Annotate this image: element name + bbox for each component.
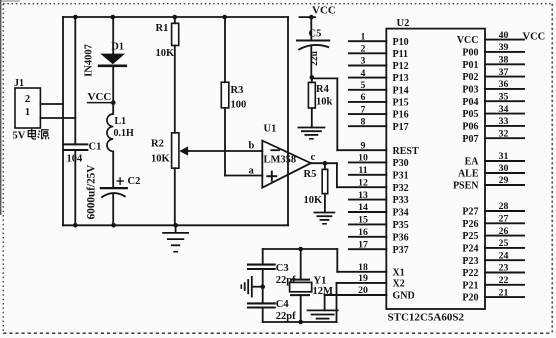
capacitor C5 22u	[297, 29, 329, 50]
pin 26 (P25)	[462, 226, 524, 242]
pin 17 (P37)	[349, 239, 409, 255]
pin 15 (P35)	[349, 215, 409, 231]
node top rail / R3	[222, 15, 227, 20]
svg-text:15: 15	[358, 215, 368, 226]
svg-text:a: a	[249, 166, 255, 177]
svg-text:P32: P32	[393, 183, 409, 194]
svg-text:R3: R3	[231, 85, 244, 96]
svg-text:P36: P36	[393, 232, 409, 243]
svg-text:P33: P33	[393, 195, 409, 206]
pin 5 (P14)	[349, 80, 409, 96]
wire GND pin20 to ground	[324, 295, 326, 310]
label output c	[311, 152, 316, 163]
svg-text:13: 13	[358, 190, 368, 201]
svg-text:35: 35	[499, 91, 509, 102]
svg-text:39: 39	[499, 42, 509, 53]
wire C4 to bottom wire	[262, 308, 264, 323]
node C3/C4/ground	[260, 284, 265, 289]
wire crystal bottom rail	[263, 321, 337, 323]
svg-text:R2: R2	[151, 139, 164, 150]
svg-text:27: 27	[499, 214, 509, 225]
node bottom rail / C1	[73, 223, 78, 228]
wire C2 to ground rail	[112, 194, 114, 225]
wire VCC to C5	[310, 17, 312, 40]
svg-text:VCC: VCC	[523, 32, 546, 43]
svg-text:1: 1	[25, 107, 30, 118]
svg-text:EA: EA	[465, 157, 480, 168]
wire node to REST pin9	[312, 78, 338, 150]
pin 21 (P20)	[462, 287, 524, 303]
svg-text:8: 8	[361, 116, 366, 127]
svg-text:P37: P37	[393, 245, 409, 256]
wire D1 anode	[112, 17, 114, 54]
label IN4007	[84, 44, 95, 77]
svg-text:10K: 10K	[156, 48, 176, 59]
power symbol VCC (reset)	[300, 5, 336, 20]
wire top rail to X1 pin18	[336, 249, 338, 272]
svg-text:P04: P04	[462, 97, 478, 108]
svg-text:P12: P12	[393, 61, 409, 72]
pin 39 (P00)	[462, 42, 524, 58]
svg-text:10K: 10K	[304, 195, 324, 206]
svg-text:4: 4	[361, 68, 366, 79]
label input b	[249, 141, 255, 152]
pin 32 (P07)	[462, 128, 524, 144]
svg-text:21: 21	[499, 287, 509, 298]
svg-text:X2: X2	[393, 279, 405, 290]
svg-text:14: 14	[358, 202, 368, 213]
resistor R4 10k	[308, 77, 332, 108]
svg-text:36: 36	[499, 79, 509, 90]
capacitor C4 22pf	[248, 299, 296, 322]
node C5/R4/REST	[310, 75, 315, 80]
pin 14 (P34)	[349, 202, 409, 218]
wire C1 branch upper	[74, 17, 76, 144]
diode D1 IN4007	[99, 41, 126, 66]
svg-text:U2: U2	[397, 18, 410, 29]
wire R1 to R2	[174, 46, 176, 133]
wire R4 to ground	[311, 108, 313, 127]
svg-text:10K: 10K	[151, 154, 171, 165]
svg-text:32: 32	[499, 128, 509, 139]
svg-text:10k: 10k	[316, 97, 333, 108]
svg-text:P27: P27	[462, 207, 478, 218]
net label VCC	[88, 91, 114, 103]
pin 7 (P16)	[349, 104, 409, 120]
pin 6 (P15)	[349, 92, 409, 108]
svg-text:P14: P14	[393, 85, 409, 96]
wire rail to R3	[224, 17, 226, 82]
pin 22 (P21)	[462, 275, 524, 291]
wire junction to ground (left)	[253, 286, 262, 288]
svg-text:c: c	[311, 152, 316, 163]
pin 30 (ALE)	[458, 163, 524, 179]
svg-text:VCC: VCC	[312, 5, 336, 17]
svg-text:29: 29	[499, 175, 509, 186]
wire V+ right vertical	[287, 17, 289, 225]
svg-text:C5: C5	[309, 29, 322, 40]
ground (R5)	[314, 213, 334, 224]
svg-text:24: 24	[499, 250, 509, 261]
svg-text:b: b	[249, 141, 255, 152]
node top rail / R1	[173, 15, 178, 20]
svg-text:30: 30	[499, 163, 509, 174]
pin 28 (P27)	[462, 201, 524, 217]
node VCC / L1	[111, 100, 116, 105]
svg-text:J1: J1	[14, 78, 24, 89]
net label VCC (pin 40)	[523, 32, 546, 43]
crystal Y1 12M	[290, 249, 333, 322]
wire R3 to op-amp input a	[225, 108, 262, 176]
svg-text:17: 17	[358, 239, 368, 250]
wire C3 to junction	[262, 269, 264, 303]
svg-text:GND: GND	[393, 291, 415, 302]
pin 3 (P12)	[349, 56, 409, 72]
svg-text:IN4007: IN4007	[84, 44, 95, 77]
pin 29 (PSEN)	[453, 175, 524, 191]
svg-text:D1: D1	[111, 41, 124, 52]
label 5V电源	[13, 129, 50, 142]
svg-text:22pf: 22pf	[276, 311, 296, 322]
pin 31 (EA)	[465, 151, 524, 167]
wire J1 pin2 to rail	[40, 103, 63, 105]
label 22u	[310, 50, 320, 66]
node top rail / D1 branch	[111, 15, 116, 20]
svg-text:P16: P16	[393, 110, 409, 121]
wire op-amp output to P32	[311, 163, 337, 187]
svg-text:R5: R5	[304, 169, 317, 180]
wire R2 to ground rail	[174, 168, 176, 225]
svg-text:6: 6	[361, 92, 366, 103]
pin 12 (P32)	[337, 177, 409, 193]
svg-text:28: 28	[499, 201, 509, 212]
svg-text:9: 9	[361, 140, 366, 151]
pin 10 (P30)	[349, 153, 409, 169]
pin 8 (P17)	[349, 116, 409, 132]
svg-text:0.1H: 0.1H	[114, 128, 135, 139]
svg-text:P23: P23	[462, 256, 478, 267]
wire crystal top rail	[263, 248, 338, 250]
svg-text:P22: P22	[462, 268, 478, 279]
svg-text:20: 20	[358, 285, 368, 296]
wire left vertical from J1 pin2	[62, 17, 64, 225]
ground (pin20)	[308, 310, 338, 318]
svg-text:38: 38	[499, 55, 509, 66]
label input a	[249, 166, 255, 177]
pin 20 (GND)	[325, 285, 415, 301]
svg-text:18: 18	[358, 262, 368, 273]
svg-text:P30: P30	[393, 158, 409, 169]
label 6000uf/25V (C2 value)	[86, 165, 98, 220]
pin 34 (P05)	[462, 104, 524, 120]
pin 35 (P04)	[462, 91, 524, 107]
svg-text:X1: X1	[393, 267, 405, 278]
svg-text:31: 31	[499, 151, 509, 162]
resistor R3 100	[221, 82, 246, 110]
svg-text:STC12C5A60S2: STC12C5A60S2	[388, 312, 465, 324]
node bottom rail / ground	[173, 223, 178, 228]
wire D1 cathode to VCC node	[112, 66, 114, 114]
svg-text:10: 10	[358, 153, 368, 164]
svg-text:PSEN: PSEN	[453, 181, 479, 192]
svg-text:P06: P06	[462, 122, 478, 133]
wiper arrow of R2	[179, 146, 188, 155]
svg-text:P11: P11	[393, 49, 409, 60]
pin 24 (P23)	[462, 250, 524, 266]
svg-text:5: 5	[361, 80, 366, 91]
svg-text:37: 37	[499, 67, 509, 78]
svg-text:C2: C2	[128, 176, 141, 187]
label STC12C5A60S2	[388, 312, 465, 324]
wire L1 to C2	[112, 151, 114, 188]
pin 27 (P26)	[462, 214, 524, 230]
svg-text:VCC: VCC	[88, 91, 112, 103]
connector J1	[14, 78, 40, 128]
svg-text:P01: P01	[462, 60, 478, 71]
wire C5 to node	[310, 47, 312, 77]
svg-text:P25: P25	[462, 231, 478, 242]
wire J1 pin1 to C1 branch	[40, 117, 75, 119]
svg-text:2: 2	[361, 44, 366, 55]
pin 4 (P13)	[349, 68, 409, 84]
capacitor C3 22pf	[248, 263, 296, 286]
svg-text:P26: P26	[462, 219, 478, 230]
svg-text:P31: P31	[393, 170, 409, 181]
wire wiper to op-amp input b	[187, 150, 262, 152]
node top rail / C1 branch	[73, 15, 78, 20]
wire bottom ground rail	[63, 224, 288, 226]
inductor L1 0.1H	[107, 114, 134, 151]
svg-text:19: 19	[358, 273, 368, 284]
resistor R1 10K	[156, 17, 179, 59]
IC U2 STC12C5A60S2	[386, 18, 485, 309]
ground (R4)	[298, 128, 324, 139]
svg-text:16: 16	[358, 227, 368, 238]
svg-text:P17: P17	[393, 122, 409, 133]
pin 19 (X2)	[337, 273, 405, 289]
capacitor C2 6000uf/25V	[101, 176, 140, 198]
svg-text:C1: C1	[89, 142, 102, 153]
svg-text:P13: P13	[393, 73, 409, 84]
ground (main rail)	[163, 225, 188, 251]
svg-text:P03: P03	[462, 85, 478, 96]
svg-text:33: 33	[499, 116, 509, 127]
svg-text:VCC: VCC	[457, 35, 479, 46]
svg-text:REST: REST	[393, 146, 419, 157]
wire R5 to ground	[324, 194, 326, 213]
pin 33 (P06)	[462, 116, 524, 132]
svg-text:LM358: LM358	[264, 155, 297, 166]
svg-text:11: 11	[358, 165, 367, 176]
svg-text:100: 100	[231, 100, 247, 111]
svg-text:P02: P02	[462, 72, 478, 83]
capacitor C1 104	[64, 142, 101, 165]
svg-text:R4: R4	[316, 84, 330, 95]
svg-text:P21: P21	[462, 280, 478, 291]
svg-text:U1: U1	[264, 124, 277, 135]
pin 23 (P22)	[462, 263, 524, 279]
ground (crystal, rotated)	[241, 277, 252, 297]
node crystal bottom	[298, 320, 303, 325]
pin 13 (P33)	[349, 190, 409, 206]
op-amp U1 LM358	[262, 124, 311, 188]
svg-text:23: 23	[499, 263, 509, 274]
svg-text:P00: P00	[462, 48, 478, 59]
svg-text:22: 22	[499, 275, 509, 286]
svg-text:C3: C3	[276, 263, 289, 274]
svg-text:ALE: ALE	[458, 169, 479, 180]
svg-text:R1: R1	[156, 23, 169, 34]
svg-text:P15: P15	[393, 98, 409, 109]
svg-text:40: 40	[499, 30, 509, 41]
potentiometer R2 10K	[151, 133, 179, 168]
wire top rail	[63, 16, 288, 18]
svg-text:P05: P05	[462, 109, 478, 120]
pin 16 (P36)	[349, 227, 409, 243]
wire X2 pin19 to bottom rail	[336, 283, 338, 322]
pin 37 (P02)	[462, 67, 524, 83]
wire left branch upper (to C3)	[262, 249, 264, 264]
resistor R5 10K	[304, 163, 328, 206]
svg-text:P34: P34	[393, 208, 409, 219]
svg-text:P35: P35	[393, 220, 409, 231]
wire C1 branch lower	[74, 150, 76, 225]
node crystal top	[298, 247, 303, 252]
svg-text:34: 34	[499, 104, 509, 115]
svg-text:26: 26	[499, 226, 509, 237]
pin 25 (P24)	[462, 238, 524, 254]
svg-text:P10: P10	[393, 37, 409, 48]
node bottom rail / C2	[111, 223, 116, 228]
pin 18 (X1)	[337, 262, 404, 278]
svg-text:5V: 5V	[13, 131, 26, 142]
pin 1 (P10)	[349, 31, 409, 47]
svg-text:25: 25	[499, 238, 509, 249]
pin 38 (P01)	[462, 55, 524, 71]
svg-text:C4: C4	[276, 299, 290, 310]
node output / R5	[323, 161, 328, 166]
svg-text:2: 2	[25, 94, 30, 105]
pin 2 (P11)	[349, 44, 408, 60]
pin 36 (P03)	[462, 79, 524, 95]
svg-text:6000uf/25V: 6000uf/25V	[86, 165, 98, 220]
svg-text:3: 3	[361, 56, 366, 67]
svg-text:1: 1	[361, 31, 366, 42]
svg-text:P20: P20	[462, 293, 478, 304]
svg-text:P24: P24	[462, 244, 478, 255]
svg-text:L1: L1	[115, 116, 127, 127]
svg-text:P07: P07	[462, 134, 478, 145]
pin 9 (REST)	[337, 140, 419, 156]
svg-text:12: 12	[358, 177, 368, 188]
svg-text:7: 7	[361, 104, 366, 115]
pin 40 (VCC)	[457, 30, 524, 46]
pin 11 (P31)	[349, 165, 409, 181]
